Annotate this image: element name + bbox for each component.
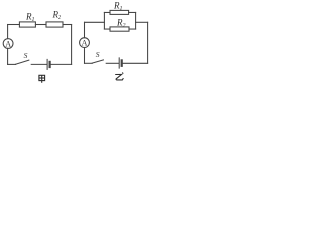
wire: right circuit top-left entry <box>85 21 105 23</box>
wire: left circuit right vertical <box>71 25 73 65</box>
resistor R1 (left circuit) <box>19 22 35 27</box>
wire: left circuit left vertical upper <box>7 25 9 39</box>
resistor R2 (left circuit) <box>46 22 63 27</box>
resistor R1 (right circuit, top branch) <box>110 10 129 14</box>
label yi (乙, right circuit battery name) <box>115 73 123 80</box>
wire: right circuit battery to bottom-right corner <box>123 62 148 64</box>
wire: right circuit top branch left lead <box>104 11 110 13</box>
label jia (甲, left circuit battery name) <box>39 75 45 83</box>
svg-text:A: A <box>5 40 11 49</box>
wire: left circuit top-right segment <box>63 24 72 26</box>
switch S (right circuit) blade <box>92 60 103 63</box>
wire: right circuit bottom branch right lead <box>129 28 136 30</box>
wire: right circuit left vertical lower <box>84 48 86 64</box>
wire: left circuit left vertical lower <box>7 48 9 64</box>
wire: left circuit top-left segment <box>8 24 20 26</box>
resistor R2 (right circuit, bottom branch) <box>110 27 129 31</box>
svg-text:A: A <box>82 39 88 48</box>
wire: right circuit top branch right lead <box>129 11 136 13</box>
svg-text:R2: R2 <box>116 18 126 30</box>
ammeter A (right circuit) <box>80 38 90 48</box>
svg-text:R2: R2 <box>52 9 62 21</box>
wire: left circuit bottom-left segment to switch pivot <box>8 63 16 65</box>
switch S (left circuit) blade <box>16 60 29 64</box>
wire: right circuit parallel left bracket <box>103 12 105 29</box>
svg-text:R1: R1 <box>25 11 35 23</box>
svg-text:R1: R1 <box>113 1 123 13</box>
wire: left circuit switch contact to battery <box>31 63 46 65</box>
battery (right circuit) short thick plate <box>121 60 123 65</box>
battery (left circuit) short thick plate <box>48 62 50 67</box>
wire: left circuit battery to bottom-right corner <box>51 63 72 65</box>
wire: left circuit between R1 and R2 <box>35 24 46 26</box>
wire: right circuit right vertical <box>147 22 149 63</box>
ammeter A (left circuit) <box>3 39 13 49</box>
wire: right circuit switch contact to battery <box>106 62 119 64</box>
wire: right circuit top-right exit <box>136 21 148 23</box>
wire: right circuit bottom-left segment to switch pivot <box>85 62 93 64</box>
svg-text:S: S <box>24 51 28 60</box>
wire: right circuit left vertical upper <box>84 22 86 37</box>
battery (right circuit) long plate <box>118 58 120 68</box>
svg-text:S: S <box>96 50 100 59</box>
battery (left circuit) long plate <box>46 59 48 69</box>
wire: right circuit parallel right bracket <box>135 12 137 29</box>
wire: right circuit bottom branch left lead <box>104 28 110 30</box>
